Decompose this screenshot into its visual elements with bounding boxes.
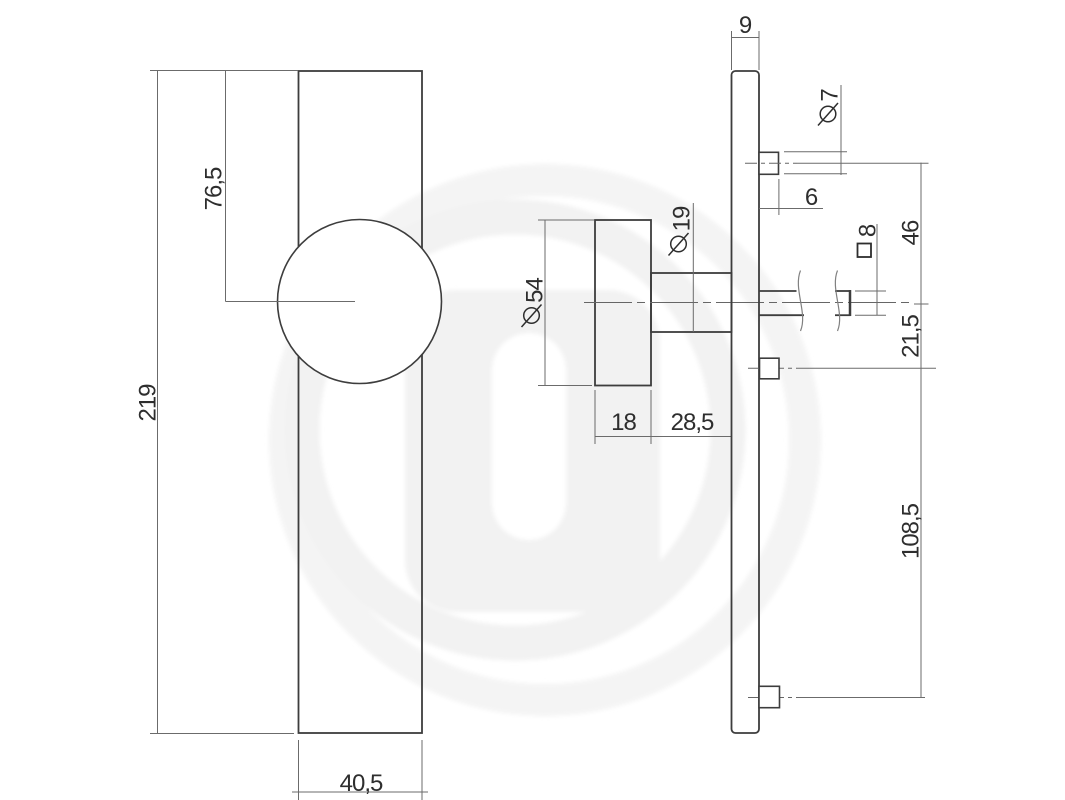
dimension 6 bbox=[759, 179, 823, 215]
spindle break line 2 bbox=[835, 271, 839, 332]
dimension Ø54 bbox=[538, 220, 594, 386]
dimension 9 bbox=[732, 31, 760, 70]
dimension square 8 bbox=[855, 224, 886, 315]
svg-text:8: 8 bbox=[854, 224, 881, 237]
svg-text:46: 46 bbox=[897, 220, 924, 245]
middle screw boss bbox=[760, 358, 780, 379]
backplate side view bbox=[732, 71, 760, 733]
lower boss center line bbox=[748, 697, 797, 699]
dimension Ø7 bbox=[840, 85, 842, 175]
svg-text:6: 6 bbox=[805, 184, 818, 211]
dimension Ø19 bbox=[692, 203, 694, 332]
svg-text:7: 7 bbox=[816, 89, 843, 102]
upper screw boss bbox=[759, 152, 779, 174]
dimension 40,5 bbox=[292, 740, 428, 800]
dimension 219 bbox=[150, 71, 298, 734]
label square8 symbol bbox=[858, 244, 872, 258]
svg-text:28,5: 28,5 bbox=[671, 409, 714, 436]
dimension 46 bbox=[920, 163, 922, 304]
svg-text:219: 219 bbox=[134, 384, 161, 422]
knob stem side view bbox=[651, 273, 732, 332]
spindle square rod bbox=[759, 291, 851, 315]
reference line 108,5 bottom bbox=[797, 697, 925, 699]
svg-text:9: 9 bbox=[739, 12, 752, 39]
lower screw boss bbox=[759, 686, 780, 707]
svg-text:76,5: 76,5 bbox=[200, 167, 227, 210]
backplate front view bbox=[299, 71, 423, 733]
label Ø19 bbox=[668, 206, 695, 255]
svg-text:108,5: 108,5 bbox=[897, 503, 924, 559]
upper boss center line bbox=[745, 162, 797, 164]
tick spindle center bbox=[914, 303, 929, 305]
svg-text:54: 54 bbox=[521, 278, 548, 303]
spindle end cap bbox=[849, 290, 852, 316]
knob side view bbox=[595, 220, 651, 386]
Ø7 projection lines bbox=[784, 152, 847, 174]
dimension 18 / 28,5 bbox=[595, 390, 732, 444]
dimension 76,5 bbox=[225, 71, 227, 302]
dimension 21,5 bbox=[920, 304, 922, 368]
label Ø54 bbox=[521, 278, 548, 327]
svg-text:21,5: 21,5 bbox=[897, 314, 924, 357]
spindle break line 1 bbox=[798, 271, 802, 332]
dimension 108,5 bbox=[920, 368, 922, 697]
label Ø7 bbox=[816, 89, 843, 126]
watermark logo bbox=[285, 180, 805, 700]
knob center line bbox=[226, 301, 356, 303]
center line knob/spindle bbox=[584, 302, 914, 304]
knob circle front view bbox=[278, 220, 442, 384]
svg-text:40,5: 40,5 bbox=[340, 770, 383, 797]
svg-text:19: 19 bbox=[668, 206, 695, 231]
middle boss center line bbox=[748, 367, 797, 369]
reference line 46 top bbox=[797, 162, 929, 164]
reference line 21,5 bottom bbox=[797, 367, 936, 369]
svg-text:18: 18 bbox=[611, 409, 636, 436]
